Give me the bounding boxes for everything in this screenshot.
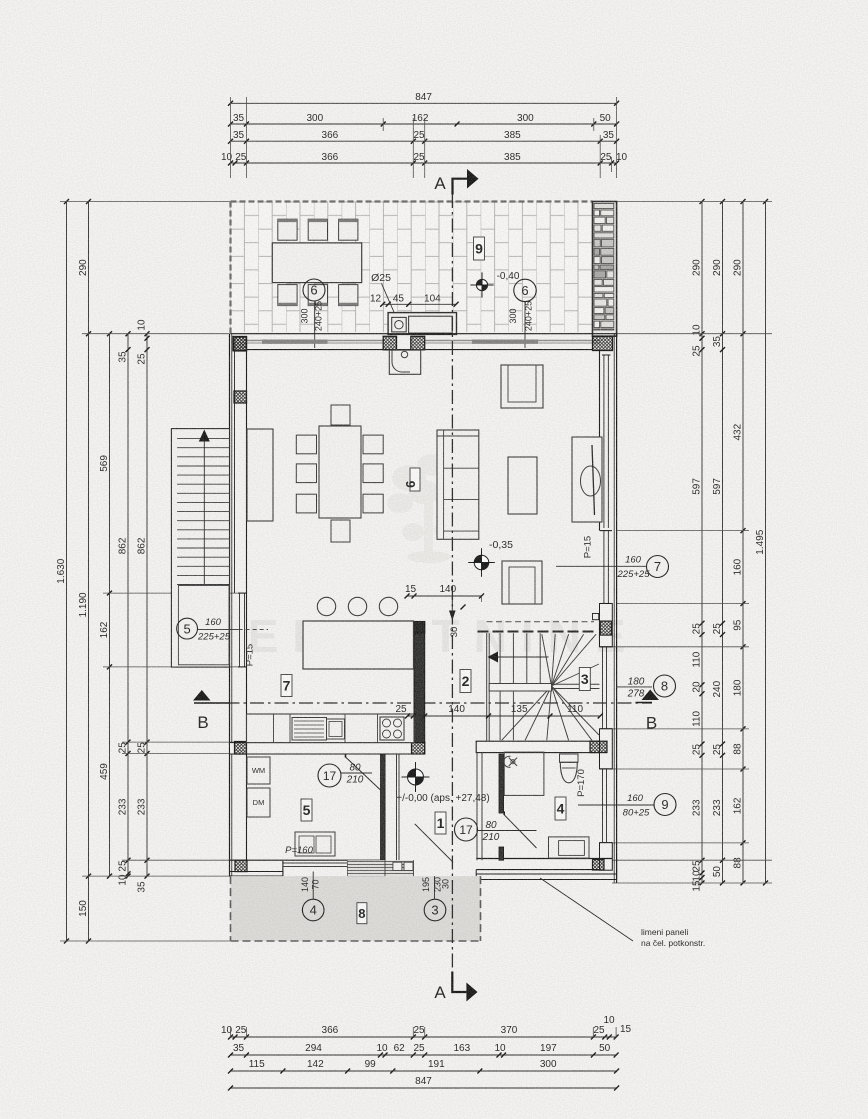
kitchen counter: [247, 714, 415, 743]
terrace chair: [308, 285, 327, 306]
left dimension chain 10/25/862/25/233/35: [146, 334, 148, 876]
dining chair right: [363, 435, 383, 454]
bottom dimension chain 35/294/10/62/25/163/10/197/50: [231, 1054, 617, 1056]
section B marker right: [642, 690, 660, 701]
terrace dashed border: [231, 200, 593, 202]
gallery 140 arrow down: [451, 596, 453, 618]
kitchen wall column left: [235, 742, 247, 754]
kitchen chimney wall: [414, 622, 425, 743]
marker 5 circled window label: [198, 628, 239, 630]
right wall door8 180: [602, 647, 604, 729]
left extension lines: [60, 201, 230, 203]
left wall column kitchen: [235, 742, 247, 755]
top extension lines: [230, 97, 232, 178]
canopy hatched area bottom: [231, 876, 481, 941]
left wall column upper2: [234, 391, 247, 403]
dining chair right: [363, 494, 383, 513]
shower: [504, 752, 544, 795]
terrace chair: [278, 285, 297, 306]
label 3 boxed: [579, 668, 590, 691]
top dimension chain 35/366/25/385/35: [231, 140, 617, 142]
entry steps: [348, 860, 414, 876]
label 2 boxed: [460, 670, 471, 693]
section B marker left: [193, 690, 211, 701]
laundry door swing: [346, 757, 382, 791]
tv sideboard: [572, 437, 602, 522]
marker 9 circled window label: [578, 804, 655, 806]
left dimension chain total 1.630: [66, 202, 68, 942]
left dimension chain 290/1.190/150: [88, 202, 90, 942]
kitchen sink drainer: [292, 718, 327, 741]
top dimension chain 35/300/162/300/50: [231, 123, 617, 125]
marker 8 circled door label: [617, 686, 652, 688]
bottom wall window room5: [283, 866, 348, 868]
right wall: [616, 334, 618, 883]
dining chair head bottom: [331, 520, 350, 542]
terrace paving tiles: [231, 202, 593, 333]
terrace chair: [278, 219, 297, 240]
hall niche wall lines: [396, 754, 398, 860]
armchair bottom: [502, 561, 542, 604]
dining chair right: [363, 464, 383, 483]
limeni paneli leader and text: [540, 878, 633, 941]
stair mid landing: [489, 684, 551, 692]
terrace chair: [339, 285, 358, 306]
external stair outline: [171, 429, 229, 667]
kitchen island: [303, 621, 414, 669]
bottom dimension chain total 847: [231, 1087, 617, 1089]
left wall window circled5: [239, 593, 241, 667]
terrace label 9 boxed: [474, 237, 485, 260]
marker 4 circled: [312, 872, 314, 900]
hall-bath stud wall: [476, 753, 478, 861]
kitchen chimney hatch top: [414, 622, 425, 634]
right wall column hatch at pier: [600, 621, 611, 635]
bathroom top wall: [476, 741, 599, 752]
dining chair head top: [331, 405, 350, 425]
external stair center line with up arrow: [203, 438, 205, 584]
bbq outdoor kitchen: [388, 313, 456, 335]
bathroom top wall hatch right: [590, 741, 607, 752]
laundry washbasin: [295, 832, 335, 856]
level marker -0.40: [476, 279, 487, 290]
section line A dash-dot: [451, 194, 453, 971]
stair treads upper flight: [499, 633, 501, 683]
right dimension chain 290/432/160/95/180/88/162/88: [742, 202, 744, 884]
column bbq left: [383, 336, 396, 350]
tv: [581, 466, 601, 496]
stair winder fan upper: [542, 634, 552, 686]
right dimension chain total 1.495: [765, 202, 767, 884]
stair direction arrow: [489, 656, 548, 658]
dining chair left: [296, 435, 316, 454]
armchair top: [501, 365, 543, 408]
marker 17 circled laundry door: [318, 764, 341, 787]
stair left stringer: [486, 633, 488, 741]
bbq inner counter with arc: [389, 350, 420, 374]
marker 3 circled: [434, 876, 436, 899]
gallery dimension 15/140: [407, 595, 482, 597]
label 6 rotated box: [410, 468, 420, 491]
left wall: [229, 334, 231, 876]
right extension lines: [617, 201, 772, 203]
sofa: [437, 430, 479, 539]
bottom dimension chain 10/25/366/25/370/25/10/15: [231, 1036, 617, 1038]
marker 6 circle left with line: [314, 302, 316, 349]
bbq dimension 12/45/104: [383, 303, 456, 305]
bath washbasin: [549, 837, 590, 858]
bottom wall column bath: [593, 860, 605, 871]
column top-right corner: [593, 336, 613, 350]
level marker 0.00: [408, 769, 424, 785]
washing machine WM: [247, 757, 270, 784]
top wall outer line: [231, 333, 617, 335]
gallery dashed edge upper: [487, 621, 595, 623]
top dimension chain total 847: [231, 102, 617, 104]
top dimension chain 10/25/366/25/385/25/10: [231, 162, 617, 164]
right dimension chain 290/10/25/597/25/110/20/110/25/233/25/10/15: [701, 202, 703, 884]
right wall window7 p15: [603, 531, 605, 604]
coffee table: [508, 457, 537, 514]
entry door swing: [415, 824, 453, 862]
terrace stone masonry strip: [593, 202, 617, 337]
label 7 boxed: [281, 675, 292, 697]
entry door frame rects: [393, 862, 402, 870]
kitchen stove: [380, 717, 404, 740]
canopy outline bottom right: [476, 873, 616, 875]
kitchen-laundry wall: [230, 743, 425, 754]
label 4 boxed: [555, 797, 566, 820]
column bbq right: [411, 336, 425, 350]
left dimension chain 35/862/25/233/25/10: [127, 334, 129, 876]
external stair landing: [178, 586, 229, 665]
bottom wall bath segment: [476, 858, 612, 860]
room5 right wall: [381, 754, 386, 860]
dining chair left: [296, 494, 316, 513]
marker 6 circle right with line: [524, 302, 526, 348]
bathroom door swing: [504, 815, 536, 848]
label 8 boxed: [357, 903, 367, 924]
right wall pivot square: [593, 614, 599, 620]
external stair treads: [177, 438, 229, 440]
stair winder fan lower: [502, 686, 552, 740]
left dimension chain 569/162/459: [109, 334, 111, 876]
right wall pier bottom: [600, 843, 613, 871]
section line B dash-dot: [201, 702, 652, 704]
bottom extension lines: [230, 1027, 232, 1037]
sideboard left wall: [247, 429, 273, 521]
right wall window9: [602, 769, 604, 843]
left wall column upper1: [234, 337, 247, 351]
stair treads lower flight: [499, 691, 501, 740]
terrace chair: [339, 219, 358, 240]
bottom dimension chain 115/142/99/191/300: [231, 1070, 617, 1072]
stair top dashed heavy line: [478, 631, 598, 633]
right dimension chain 290/35/597/25/240/25/233/50: [722, 202, 724, 884]
dining chair left: [296, 464, 316, 483]
top wall inner line: [247, 349, 415, 351]
right wall tall window upper: [603, 355, 605, 528]
bottom wall left segment: [230, 859, 381, 861]
watermark logo circle: [387, 454, 470, 563]
kitchen wall column right: [412, 742, 425, 754]
level marker -0.35: [474, 555, 489, 570]
marker 17 circled entry: [455, 818, 478, 841]
left wall column bottom: [235, 860, 247, 871]
bathroom left wall: [499, 754, 504, 813]
right wall pier 88: [600, 729, 613, 769]
bar stools: [317, 597, 335, 615]
terrace chair: [308, 219, 327, 240]
dishwasher DM: [247, 788, 270, 817]
terrace dining table: [272, 243, 361, 283]
dining table interior: [319, 426, 361, 518]
label 5 boxed: [301, 799, 312, 821]
wc toilet: [560, 754, 579, 762]
top wall glass lines: [247, 340, 384, 342]
marker 7 circled window label: [556, 565, 647, 567]
column top-left corner: [233, 337, 247, 351]
label 1 boxed: [435, 812, 446, 834]
stair dimension 25/140/135/110: [408, 715, 601, 717]
right wall pier 95: [600, 604, 613, 647]
